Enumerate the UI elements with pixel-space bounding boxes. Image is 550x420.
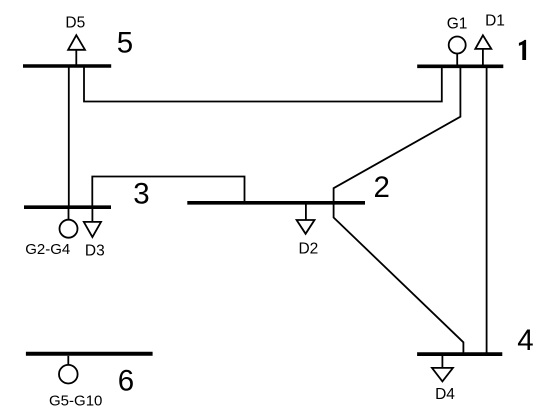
wire bus2-bus4 (334, 203, 464, 354)
wire bus1-bus2 (334, 66, 461, 203)
svg-text:G2-G4: G2-G4 (25, 241, 70, 258)
wire bus1-bus4 (486, 66, 488, 354)
wire bus5-bus3 (68, 66, 70, 207)
svg-text:5: 5 (117, 27, 133, 60)
generator G1 (447, 16, 468, 65)
svg-text:G1: G1 (447, 16, 468, 33)
svg-text:3: 3 (133, 178, 149, 211)
generator G2-G4 (25, 209, 77, 258)
wire bus3-bus2 (92, 177, 244, 208)
wire bus5-bus1 (84, 66, 442, 102)
bus 2 bar (187, 201, 365, 205)
load D5 (65, 15, 85, 65)
bus 4 bar (417, 352, 502, 356)
load D4 (432, 356, 455, 403)
load D2 (297, 205, 319, 258)
generator G5-G10 (49, 356, 102, 410)
bus 1 bar (417, 65, 503, 69)
load D3 (84, 209, 105, 259)
svg-text:D1: D1 (485, 13, 505, 30)
svg-text:D2: D2 (298, 240, 318, 257)
bus 3 bar (24, 205, 111, 209)
svg-text:6: 6 (118, 365, 134, 398)
svg-text:4: 4 (517, 324, 533, 357)
svg-text:G5-G10: G5-G10 (49, 393, 102, 410)
svg-text:2: 2 (373, 171, 389, 204)
svg-text:D3: D3 (85, 242, 105, 259)
bus 5 bar (23, 64, 111, 68)
node label 1 (519, 40, 526, 60)
bus 6 bar (26, 352, 153, 356)
svg-text:D5: D5 (65, 15, 85, 32)
load D1 (475, 13, 505, 65)
svg-text:D4: D4 (435, 386, 455, 403)
